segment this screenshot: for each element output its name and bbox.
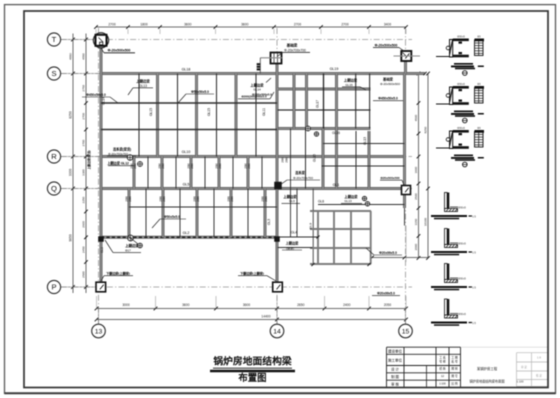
- svg-text:10300: 10300: [424, 217, 428, 226]
- svg-text:1:100: 1:100: [439, 382, 446, 386]
- svg-text:12: 12: [441, 374, 445, 378]
- svg-text:Φ50x5: Φ50x5: [458, 241, 466, 245]
- svg-text:审 核: 审 核: [391, 381, 399, 386]
- svg-text:Φ-20x700x700: Φ-20x700x700: [108, 152, 128, 156]
- svg-text:核 定: 核 定: [536, 374, 542, 378]
- svg-text:3400: 3400: [384, 22, 392, 26]
- svg-text:连系梁(梁顶): 连系梁(梁顶): [113, 147, 131, 152]
- svg-text:Φ450x50x5.0: Φ450x50x5.0: [86, 93, 106, 97]
- svg-text:14: 14: [273, 329, 281, 336]
- svg-text:1800: 1800: [140, 22, 148, 26]
- svg-text:Φ50x5: Φ50x5: [457, 35, 465, 39]
- svg-text:GL17: GL17: [316, 100, 320, 108]
- svg-text:2600: 2600: [82, 221, 86, 228]
- svg-text:审 定: 审 定: [521, 365, 527, 369]
- svg-text:1:100: 1:100: [517, 379, 524, 383]
- svg-text:Φ20x99x5.0: Φ20x99x5.0: [377, 291, 395, 295]
- svg-text:4550: 4550: [82, 53, 86, 60]
- svg-text:2000: 2000: [414, 243, 418, 250]
- svg-text:1:5: 1:5: [472, 321, 476, 325]
- svg-text:R: R: [51, 152, 57, 161]
- svg-text:Φ50x5: Φ50x5: [458, 276, 466, 280]
- svg-text:T: T: [52, 35, 57, 44]
- svg-text:上翻边梁: 上翻边梁: [250, 82, 264, 87]
- svg-text:GL4: GL4: [291, 231, 297, 235]
- svg-text:设 计: 设 计: [391, 366, 399, 371]
- svg-text:9850: 9850: [69, 234, 73, 242]
- svg-text:2Φ9: 2Φ9: [285, 157, 289, 163]
- svg-text:GL15: GL15: [345, 83, 353, 87]
- svg-text:2450: 2450: [82, 246, 86, 253]
- svg-text:2650: 2650: [297, 303, 305, 307]
- svg-text:GL9: GL9: [289, 199, 295, 203]
- svg-text:名 号: 名 号: [451, 359, 458, 364]
- svg-text:2Φ9: 2Φ9: [196, 196, 200, 202]
- svg-text:2Φ9: 2Φ9: [264, 196, 268, 202]
- svg-text:S: S: [51, 69, 56, 78]
- svg-text:14400: 14400: [261, 314, 270, 318]
- svg-text:制 图: 制 图: [391, 374, 399, 379]
- svg-text:比 例: 比 例: [451, 382, 458, 386]
- svg-text:GL1: GL1: [333, 183, 340, 187]
- svg-text:Φ5: Φ5: [477, 83, 481, 86]
- svg-text:图 别: 图 别: [451, 367, 458, 371]
- svg-text:1:5: 1:5: [472, 215, 476, 219]
- svg-text:GL18: GL18: [182, 68, 191, 72]
- svg-text:3000: 3000: [122, 303, 130, 307]
- svg-text:3600: 3600: [241, 22, 249, 26]
- svg-text:Φ-20x700x700: Φ-20x700x700: [293, 176, 313, 180]
- svg-text:Q: Q: [51, 184, 57, 193]
- svg-text:布置图: 布置图: [238, 372, 266, 383]
- svg-text:GL5: GL5: [183, 182, 190, 186]
- svg-text:2500: 2500: [82, 271, 86, 278]
- svg-text:2400: 2400: [343, 303, 351, 307]
- svg-text:Φ20x500x500: Φ20x500x500: [380, 176, 399, 180]
- svg-text:13: 13: [95, 329, 103, 336]
- svg-text:2Φ9: 2Φ9: [128, 196, 132, 202]
- svg-text:GL13: GL13: [363, 137, 367, 145]
- svg-text:Φ20x99x5.0: Φ20x99x5.0: [379, 251, 397, 255]
- svg-text:锅炉房地面结构梁布置图: 锅炉房地面结构梁布置图: [469, 378, 504, 383]
- svg-text:上翻边梁: 上翻边梁: [283, 194, 297, 199]
- svg-text:建设单位: 建设单位: [388, 348, 402, 353]
- svg-text:2050: 2050: [384, 303, 392, 307]
- svg-text:号 称: 号 称: [439, 359, 446, 364]
- svg-text:2250: 2250: [82, 196, 86, 203]
- svg-text:上翻边梁 GL12: 上翻边梁 GL12: [107, 161, 129, 166]
- svg-text:Φ17: Φ17: [125, 248, 131, 252]
- svg-text:GL19: GL19: [330, 67, 339, 71]
- svg-text:下翻边梁(上翻梁): 下翻边梁(上翻梁): [240, 271, 264, 276]
- svg-text:上翻边梁(梁顶): 上翻边梁(梁顶): [86, 150, 91, 169]
- svg-text:3600: 3600: [182, 303, 190, 307]
- svg-text:4550: 4550: [69, 53, 73, 60]
- svg-text:2Φ9: 2Φ9: [230, 196, 234, 202]
- svg-text:GL3: GL3: [100, 247, 104, 253]
- svg-text:GL14: GL14: [253, 88, 261, 92]
- svg-text:GL11: GL11: [262, 108, 266, 116]
- svg-text:Φ50x5: Φ50x5: [458, 312, 466, 316]
- svg-text:GL9: GL9: [309, 223, 313, 229]
- svg-text:GL13: GL13: [344, 199, 352, 203]
- svg-text:Φ-20x500x500: Φ-20x500x500: [375, 43, 398, 47]
- svg-text:基础梁: 基础梁: [382, 76, 394, 81]
- svg-text:上翻边梁: 上翻边梁: [344, 194, 358, 199]
- svg-text:Φ50x5: Φ50x5: [457, 126, 465, 130]
- svg-text:下翻边梁(上翻梁): 下翻边梁(上翻梁): [106, 271, 130, 276]
- svg-text:结 施: 结 施: [439, 367, 446, 371]
- svg-text:GL2: GL2: [183, 231, 190, 235]
- svg-text:2Φ6: 2Φ6: [218, 163, 222, 169]
- svg-text:GL10: GL10: [182, 150, 191, 154]
- svg-text:连系梁: 连系梁: [295, 170, 305, 175]
- svg-text:GL9: GL9: [287, 246, 293, 250]
- svg-text:4500: 4500: [414, 114, 418, 121]
- svg-text:某锅炉房工程: 某锅炉房工程: [477, 366, 498, 371]
- svg-text:Φ300(300)300x5.0: Φ300(300)300x5.0: [241, 94, 267, 98]
- svg-text:1:8: 1:8: [537, 356, 541, 360]
- svg-text:2Φ6: 2Φ6: [247, 163, 251, 169]
- svg-text:2750: 2750: [82, 85, 86, 92]
- svg-text:上翻边梁: 上翻边梁: [136, 79, 150, 84]
- svg-text:施工单位: 施工单位: [388, 358, 402, 363]
- svg-text:GL3: GL3: [267, 219, 271, 225]
- svg-text:GL15: GL15: [313, 154, 317, 162]
- svg-text:Φ-20x500x500: Φ-20x500x500: [108, 49, 131, 53]
- svg-text:GL13: GL13: [139, 84, 147, 88]
- svg-text:GL15: GL15: [149, 108, 153, 116]
- svg-text:2700: 2700: [294, 22, 302, 26]
- svg-text:GL6: GL6: [318, 200, 324, 204]
- svg-text:3600: 3600: [414, 166, 418, 173]
- svg-text:2700: 2700: [82, 113, 86, 120]
- svg-text:Φ50x5: Φ50x5: [457, 82, 465, 86]
- svg-text:Φ50x5x5.0: Φ50x5x5.0: [164, 215, 180, 219]
- svg-text:2700: 2700: [82, 139, 86, 146]
- svg-text:8250: 8250: [424, 126, 428, 133]
- svg-text:1:5: 1:5: [472, 286, 476, 290]
- svg-text:图 号: 图 号: [451, 374, 458, 378]
- svg-text:2Φ6: 2Φ6: [161, 163, 165, 169]
- svg-text:Φ-20x700x700: Φ-20x700x700: [284, 48, 306, 52]
- svg-text:上翻边梁: 上翻边梁: [286, 241, 300, 246]
- svg-text:2Φ6: 2Φ6: [190, 163, 194, 169]
- svg-text:8250: 8250: [69, 111, 73, 119]
- svg-text:Φ50x50x5.0: Φ50x50x5.0: [191, 90, 209, 94]
- svg-text:2700: 2700: [108, 22, 116, 26]
- svg-text:15: 15: [402, 329, 410, 336]
- svg-text:3150: 3150: [414, 218, 418, 225]
- svg-text:Φ50x5: Φ50x5: [458, 205, 466, 209]
- svg-text:P: P: [51, 283, 56, 292]
- svg-text:Φ5: Φ5: [477, 127, 481, 130]
- svg-text:上翻边梁: 上翻边梁: [344, 77, 358, 82]
- svg-text:2700: 2700: [341, 22, 349, 26]
- svg-text:GL15: GL15: [207, 108, 211, 116]
- svg-text:3300: 3300: [82, 169, 86, 176]
- svg-text:GL14: GL14: [102, 97, 106, 105]
- svg-text:3600: 3600: [243, 303, 251, 307]
- svg-text:Φ450x50x5.0: Φ450x50x5.0: [378, 97, 398, 101]
- svg-text:Φ5: Φ5: [477, 35, 481, 38]
- svg-text:锅炉房地面结构梁: 锅炉房地面结构梁: [213, 354, 292, 367]
- svg-text:Φ-20x500x500: Φ-20x500x500: [380, 82, 400, 86]
- svg-text:2500: 2500: [414, 193, 418, 200]
- svg-text:1:5: 1:5: [472, 251, 476, 255]
- svg-text:3600: 3600: [184, 22, 192, 26]
- svg-text:3300: 3300: [69, 169, 73, 177]
- svg-text:2Φ9: 2Φ9: [162, 196, 166, 202]
- svg-text:GL16: GL16: [332, 131, 340, 135]
- svg-text:基础梁: 基础梁: [286, 43, 298, 48]
